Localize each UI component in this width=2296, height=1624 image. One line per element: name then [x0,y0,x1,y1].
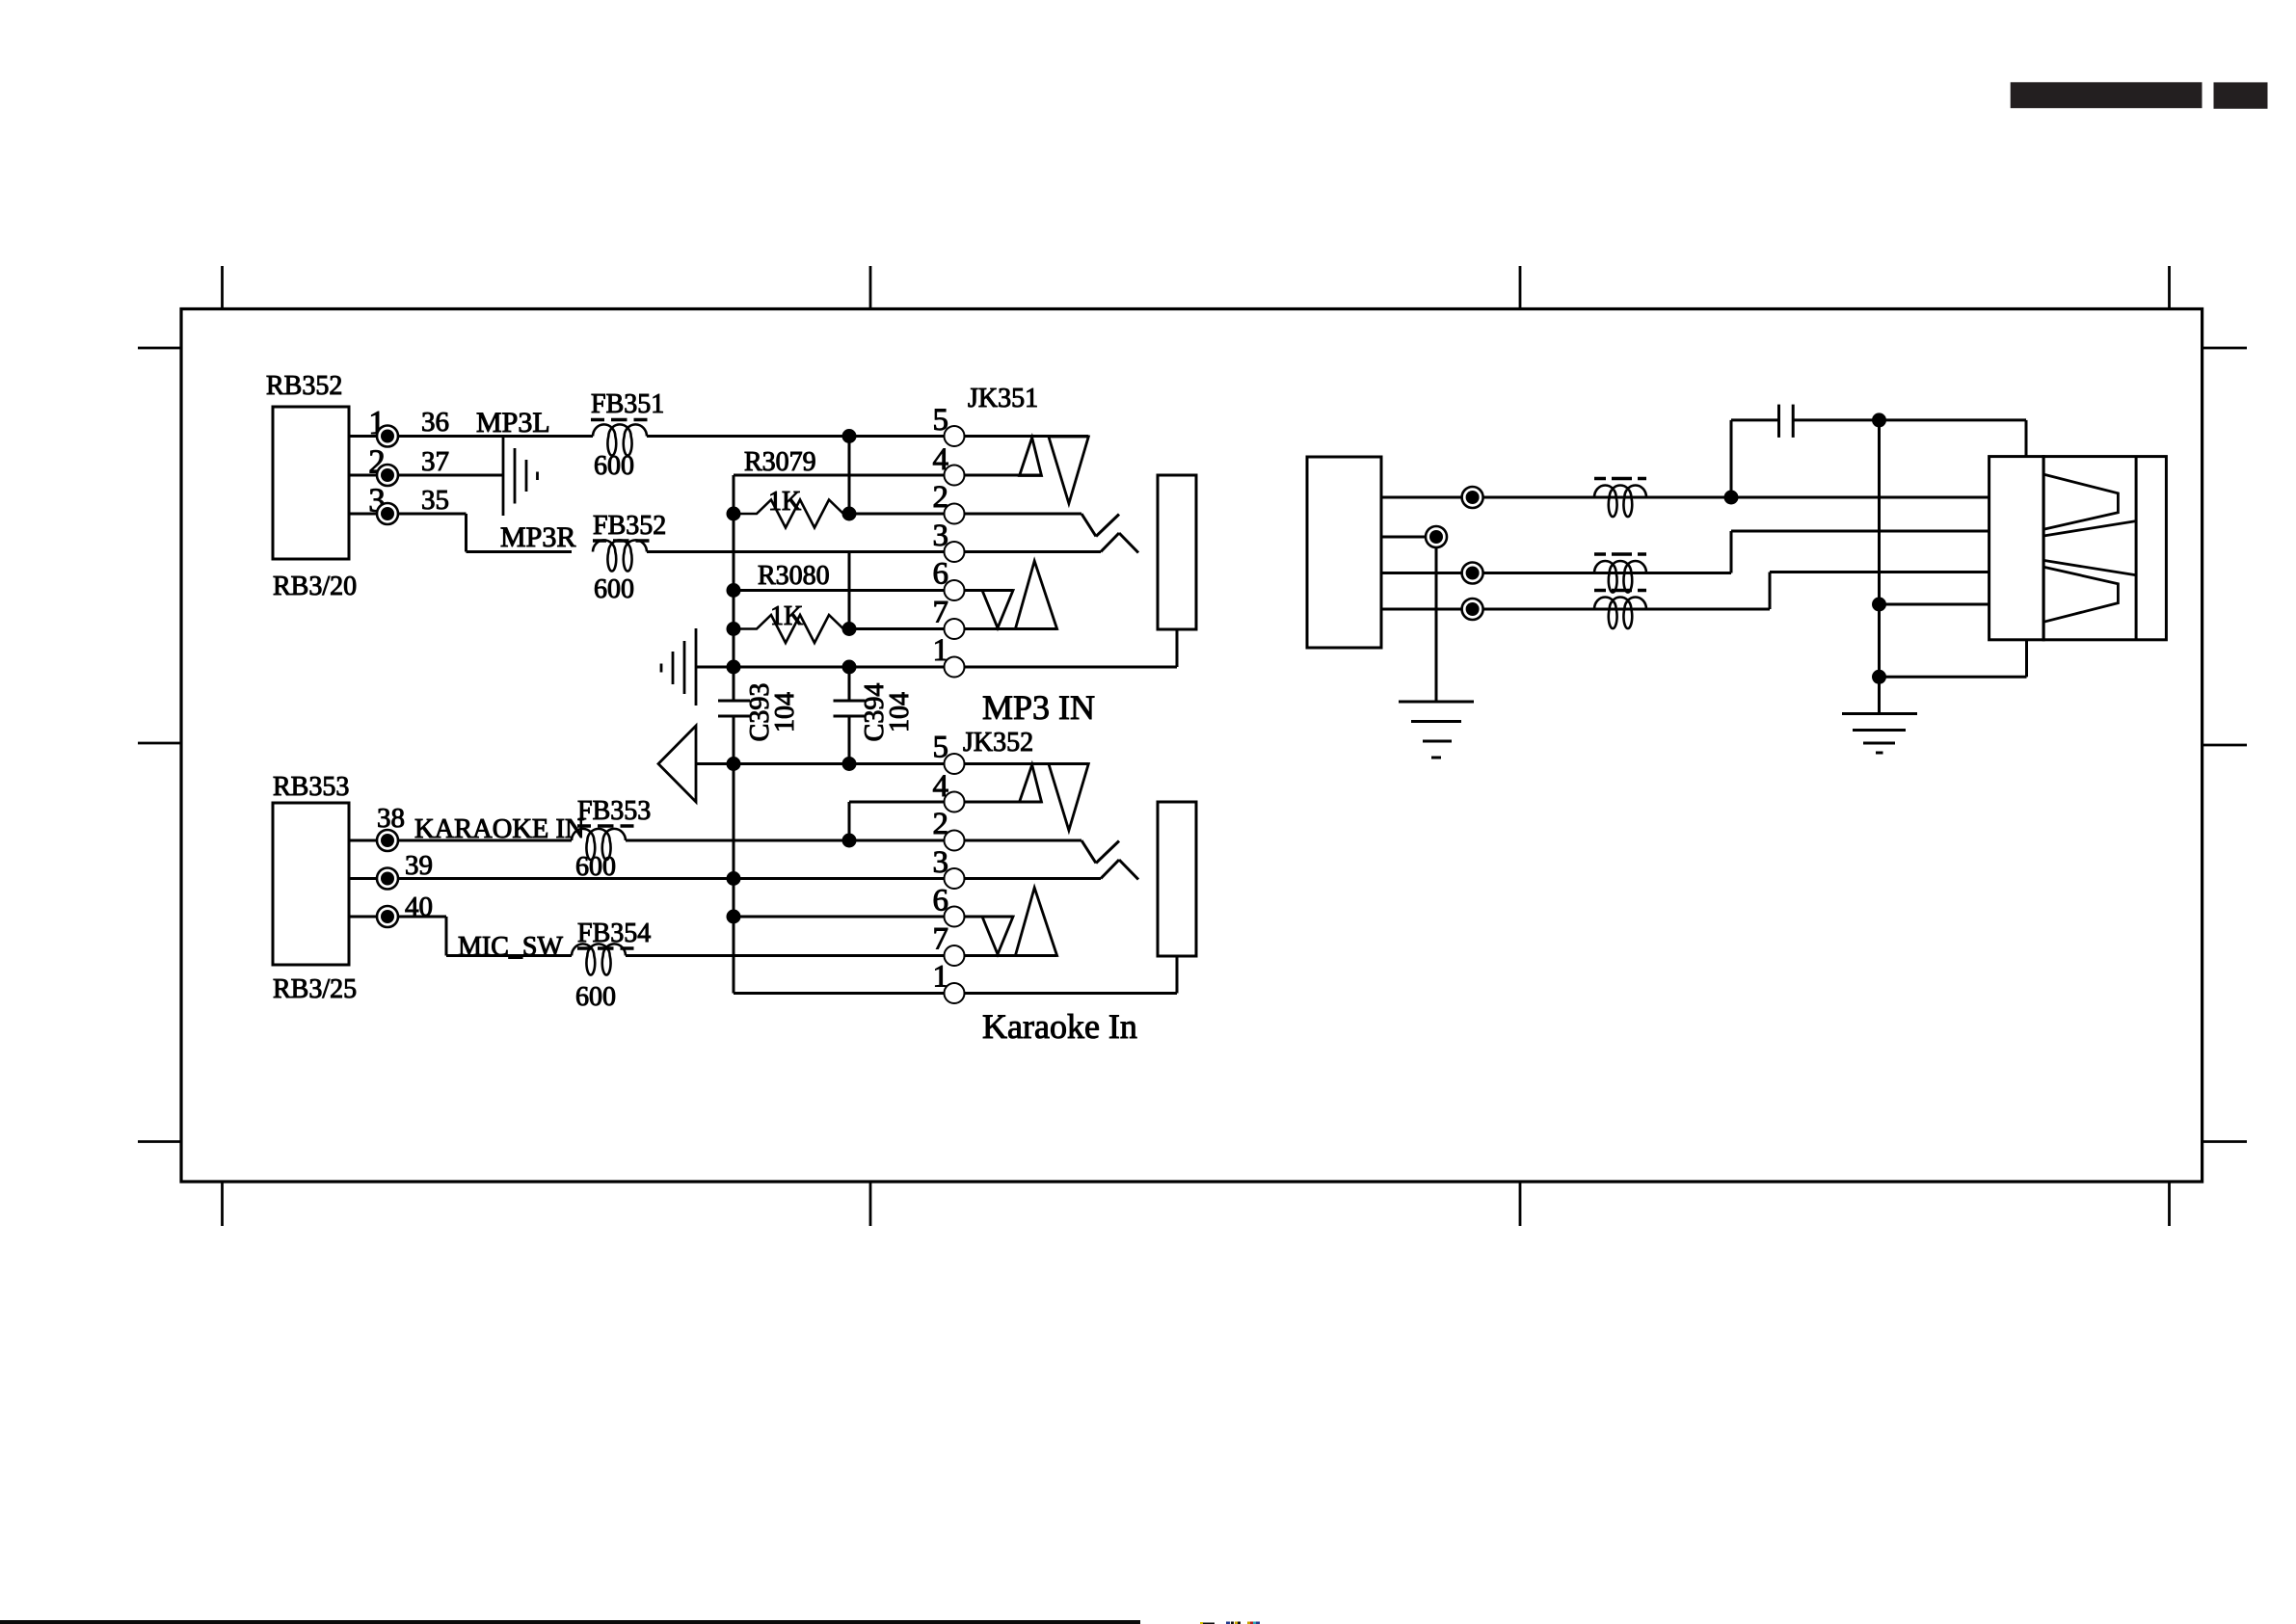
USB connector internal divider [2135,457,2138,640]
JK352 contact triangle small down [982,917,1013,954]
USB connector main body [2043,457,2166,640]
connector RB352 body [273,407,349,559]
svg-text:36: 36 [421,407,449,438]
JK351 pin digit 2 [933,480,949,515]
svg-text:JK352: JK352 [963,728,1033,758]
svg-text:37: 37 [421,446,449,477]
wire FB352 to JK351 pin 3 [647,550,1101,553]
resistor R3079 [734,500,849,528]
earth ground symbol bottom right [1842,714,1917,754]
junction dots right circuit [1724,413,1887,683]
wire JK352 pin 4 elbow [849,802,1042,840]
pad on wire 4 [1462,599,1483,620]
label FB352 [593,511,666,541]
svg-text:RB3/20: RB3/20 [273,572,357,601]
svg-text:104: 104 [770,692,800,732]
wire FB354 to JK352 pin 7 [626,954,1057,957]
JK351 pin digit 1 [933,633,949,668]
bus wire to USB connector pin [1880,603,1989,606]
pad on wire 3 [1462,563,1483,584]
ferrite bead FB351 [593,424,647,455]
label JK351 [968,384,1038,413]
title block bar large (top right) [2011,82,2203,108]
pad 38 [377,830,398,851]
JK352 pin digit 6 [933,884,949,918]
label 104 of C393 (rotated) [770,692,800,732]
label C393 (rotated) [745,683,775,742]
JK352 contact triangle large up [1015,888,1056,956]
bus vertical right [1878,420,1881,714]
JK351 contact triangle large down [1049,437,1088,503]
JK352 contact triangle large down [1049,764,1088,831]
JK352 contact triangle small up [1020,765,1042,803]
RB352 pin 1 stub wire [349,435,379,438]
JK351 switch contact pin 3 [1101,533,1138,553]
JK352 pin digit 7 [933,922,949,957]
label FB354 [577,918,651,948]
wire pad 38 to FB353 [398,839,573,842]
bottom border alignment ticks [223,1182,2170,1226]
JK351 contact triangle small down [982,591,1013,628]
svg-text:39: 39 [405,850,433,881]
wire JK352 pin 5 line [696,762,1088,765]
earth ground symbol below wire 2 pad [1399,702,1474,758]
wire 4 from right connector [1381,572,1989,610]
wire pin 37 to ground [398,474,504,477]
net label MIC_SW [458,932,563,962]
wire 2 stub from right connector [1381,536,1427,539]
wire 1 from right connector [1381,496,1989,499]
pad label 36 [421,407,449,438]
JK352 pin digit 5 [933,731,949,765]
label RB3/20 [273,572,357,601]
RB352 pin number 1 [368,404,386,441]
junction dots JK351 area [727,429,857,675]
svg-text:35: 35 [421,485,449,516]
pad label 37 [421,446,449,477]
ground bus vertical (x761) upper [733,514,735,701]
USB lower thin contact line [2043,560,2136,574]
label FB353 [577,796,651,826]
svg-text:MP3 IN: MP3 IN [982,688,1095,727]
right connector body [1307,457,1381,648]
pad 39 [377,868,398,890]
net label Karaoke In [982,1007,1137,1046]
label RB353 [273,772,349,802]
svg-text:FB351: FB351 [591,389,664,419]
pad label 38 [377,803,405,834]
border frame of schematic sheet [181,309,2203,1183]
FB352 dash underline [593,539,650,543]
svg-text:MP3R: MP3R [500,521,575,553]
wire pad 39 to JK352 pin 3 [398,877,1102,880]
capacitor plates (right circuit) [1779,405,1794,438]
label JK352 [963,728,1033,758]
capacitor C394 plates [834,701,866,716]
wire JK351 pin 1 (ground line) [696,629,1177,667]
USB connector left section [1989,457,2044,640]
svg-text:104: 104 [885,692,915,732]
label FB351 [591,389,664,419]
wire JK351 pin 7 [849,627,1057,630]
ground bus vertical (x761) lower [733,716,735,994]
JK351 pin digit 3 [933,519,949,553]
USB lower contact blade [2043,567,2118,622]
wire MP3L from pad 36 to FB351 [398,435,594,438]
pad label 39 [405,850,433,881]
FB351 dash underline [591,418,648,422]
JK352 jack body [1158,802,1196,956]
svg-text:R3080: R3080 [758,561,830,591]
JK351 pin digit 5 [933,403,949,438]
ferrite bead FB352 [593,540,647,571]
label C394 (rotated) [860,683,890,742]
title block bar small (top right) [2214,82,2268,108]
ferrite bead on wire 1 [1594,485,1646,517]
clipped footer text marks (colored) [1200,1622,1260,1624]
svg-text:600: 600 [594,451,634,481]
svg-text:JK351: JK351 [968,384,1038,413]
wire 3 from right connector [1381,531,1989,573]
pad 40 [377,906,398,927]
value 600 of FB353 [575,852,616,882]
bead dashes wire 3 [1594,552,1646,556]
value 600 of FB351 [594,451,634,481]
RB352 pin number 3 [368,482,386,519]
ferrite bead on wire 4 [1594,597,1646,628]
svg-text:38: 38 [377,803,405,834]
label RB3/25 [273,974,357,1004]
node bus vertical (x881) gnd-C394 [848,667,851,764]
svg-text:Karaoke In: Karaoke In [982,1007,1137,1046]
wire 2 to ground [1435,537,1438,702]
svg-text:RB3/25: RB3/25 [273,974,357,1004]
bottom page rule bar [0,1620,1140,1624]
net label MP3R [500,521,575,553]
pad on wire 1 [1462,487,1483,508]
ferrite bead on wire 3 [1594,561,1646,593]
pad 36 [377,426,398,447]
JK351 switch contact pin 2 [1081,514,1119,537]
pad label 40 [405,892,433,922]
net label MP3 IN [982,688,1095,727]
JK351 contact triangle small up [1020,438,1042,476]
JK352 pin digit 2 [933,807,949,841]
bead dashes wire 1 [1594,477,1646,481]
wire JK352 pin 1 (ground line) [734,956,1177,994]
capacitor branch wire up from wire 1 [1731,420,1779,497]
ferrite bead FB353 [572,829,626,860]
bus wire to USB connector bottom [1880,640,2027,678]
RB352 pin number 2 [368,443,386,481]
wire pin 35 to MP3R line [398,514,573,552]
JK351 pin digit 4 [933,442,949,477]
wire pad 40 to MIC_SW line [398,917,573,956]
signal arrow triangle into JK352 pin 5 [658,726,696,802]
label 104 of C394 (rotated) [885,692,915,732]
JK351 pin circles [945,426,965,678]
pad label 35 [421,485,449,516]
value 1K of R3080 [770,601,803,631]
ferrite bead FB354 [572,944,626,974]
JK352 pin digit 1 [933,960,949,995]
value 600 of FB352 [594,574,634,604]
earth ground symbol left of JK351 pin 1 [661,628,696,706]
JK351 contact triangle large up [1015,561,1056,629]
pad 37 [377,465,398,486]
RB353 pin stub wires [349,840,379,917]
USB upper contact blade [2043,474,2118,529]
net label KARAOKE IN [414,814,585,844]
value 600 of FB354 [575,982,616,1012]
svg-text:RB353: RB353 [273,772,349,802]
wire JK351 pin 6 [734,589,1013,592]
JK352 pin digit 3 [933,845,949,880]
RB352 pin 2 stub wire [349,474,379,477]
pad 35 [377,503,398,524]
node bus vertical (x881) pin3-pin7 [848,552,851,629]
JK351 pin digit 7 [933,596,949,630]
bead dashes wire 4 [1594,589,1646,593]
capacitor top wire to USB connector [1793,420,2026,457]
capacitor C393 plates [718,701,750,716]
value 1K of R3079 [768,487,801,517]
JK351 jack body [1158,475,1196,629]
junction dots JK352 area [727,757,857,924]
svg-text:MP3L: MP3L [476,407,550,439]
svg-text:MIC_SW: MIC_SW [458,932,563,962]
svg-text:600: 600 [594,574,634,604]
JK352 pin digit 4 [933,769,949,804]
svg-text:FB353: FB353 [577,796,651,826]
JK351 pin digit 6 [933,557,949,592]
RB352 pin 3 stub wire [349,513,379,516]
resistor R3080 [734,615,849,643]
FB354 dash underline [577,946,634,950]
top border alignment ticks [223,266,2170,309]
wire JK351 pin 4 elbow [734,475,1042,514]
connector RB353 body [273,803,349,965]
label RB352 [266,371,342,401]
ground symbol (earth, rotated) on pin 37 net [503,437,538,517]
node bus vertical (x881) pin5-pin2 [848,437,851,515]
USB upper thin contact line [2043,521,2136,536]
svg-text:600: 600 [575,982,616,1012]
JK352 switch contact pin 2 [1081,840,1119,864]
svg-text:R3079: R3079 [744,447,816,477]
JK352 pin circles [945,754,965,1003]
wire JK351 pin 2 from R3079 [849,513,1081,516]
net label MP3L [476,407,550,439]
label R3079 [744,447,816,477]
FB353 dash underline [577,824,634,828]
label R3080 [758,561,830,591]
JK352 switch contact pin 3 [1101,860,1138,880]
wire FB351 to JK351 pin 5 [647,435,1088,438]
left border alignment ticks [138,348,181,1142]
pad on wire 2 [1426,526,1447,547]
wire FB353 to JK352 pin 2 [626,839,1081,842]
wire JK352 pin 6 [734,916,1013,918]
svg-text:RB352: RB352 [266,371,342,401]
svg-text:FB352: FB352 [593,511,666,541]
right border alignment ticks [2203,348,2247,1142]
